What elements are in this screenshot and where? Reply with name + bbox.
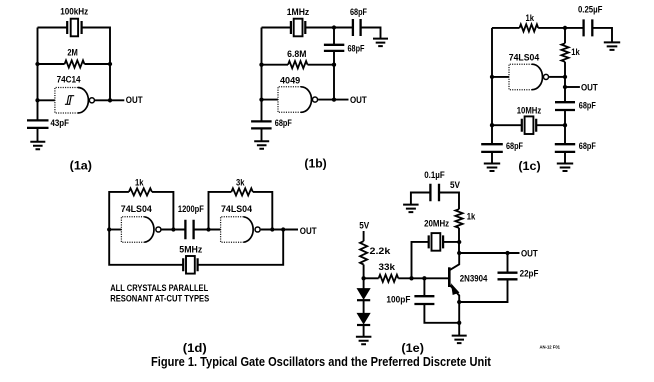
wire crystal right 1c — [536, 124, 565, 126]
svg-text:68pF: 68pF — [506, 141, 523, 152]
capacitor 68pF left 1c — [481, 144, 503, 152]
wire crystal left 1c — [492, 124, 522, 126]
wire base line — [398, 277, 449, 279]
svg-text:OUT: OUT — [300, 226, 317, 237]
resistor 2.2k — [360, 241, 367, 264]
capacitor 22pF — [498, 273, 518, 280]
svg-text:43pF: 43pF — [51, 118, 70, 129]
svg-text:OUT: OUT — [126, 95, 143, 106]
svg-text:74C14: 74C14 — [57, 74, 82, 85]
svg-text:RESONANT AT-CUT TYPES: RESONANT AT-CUT TYPES — [110, 294, 209, 305]
svg-text:1MHz: 1MHz — [287, 7, 310, 18]
ground 1a — [30, 142, 45, 150]
wire left rail 1b — [261, 28, 263, 122]
wire right cap to ground 1c — [564, 152, 566, 164]
resistor 1k 1e — [455, 209, 462, 228]
inverter 74LS04 second — [221, 217, 244, 242]
wire 6.8M left — [262, 64, 289, 66]
wire 68pF shunt to 6.8M node — [333, 51, 335, 65]
ground left 1c — [484, 164, 500, 172]
node gate output junction 1c — [563, 75, 567, 79]
svg-text:20MHz: 20MHz — [424, 218, 449, 229]
svg-text:3k: 3k — [236, 177, 245, 188]
resistor 1k feedback 1d — [129, 188, 152, 195]
svg-text:74LS04: 74LS04 — [121, 204, 153, 215]
crystal 10MHz — [522, 119, 536, 132]
inverter 4049 — [278, 87, 301, 113]
wire left cap to ground 1c — [491, 152, 493, 164]
wire crystal right 1e — [443, 241, 459, 243]
crystal 100kHz — [67, 21, 81, 34]
svg-text:1200pF: 1200pF — [178, 204, 204, 215]
wire 33k left stub — [364, 277, 379, 279]
ground diodes — [356, 337, 372, 345]
svg-text:5V: 5V — [450, 180, 460, 191]
svg-text:(1a): (1a) — [70, 158, 92, 172]
wire cap to ground top right 1b — [361, 28, 381, 39]
wire gate1 input — [109, 229, 121, 231]
wire top 1c 1k to junction — [538, 27, 583, 29]
wire crystal loop left — [109, 230, 183, 265]
wire top 1b crystal right — [305, 27, 353, 29]
wire 5V to 1k — [439, 193, 459, 210]
wire top 1b crystal left — [262, 27, 291, 29]
wire gate input 1b — [262, 99, 279, 101]
svg-text:68pF: 68pF — [348, 43, 365, 54]
svg-text:68pF: 68pF — [350, 7, 367, 18]
inverter 74LS04 1c — [509, 64, 532, 90]
wire gate output 1a — [95, 99, 124, 101]
wire 1k top stub — [564, 28, 566, 43]
wire left rail 1c — [491, 28, 493, 144]
capacitor 0.25uF — [584, 19, 593, 36]
resistor 1k feedback 1c — [520, 24, 539, 31]
resistor 33k — [379, 275, 399, 282]
svg-text:22pF: 22pF — [520, 269, 539, 280]
crystal 20MHz — [429, 235, 443, 248]
node crystal-cap junction 1b — [332, 25, 336, 29]
capacitor 100pF — [414, 296, 434, 304]
svg-text:1k: 1k — [467, 211, 476, 222]
node junction right 6.8M — [332, 63, 336, 67]
ground top right 1c — [604, 42, 620, 50]
node crystal loop junction — [281, 227, 285, 231]
node emitter junction — [457, 300, 461, 304]
capacitor 68pF upper right 1c — [555, 102, 575, 110]
svg-text:1k: 1k — [571, 47, 580, 58]
wire top 1a crystal right — [82, 28, 110, 101]
capacitor 68pF bottom 1b — [251, 121, 272, 128]
wire top 1a crystal left — [38, 27, 68, 29]
wire gate input 1c — [492, 76, 509, 78]
capacitor 68pF shunt — [324, 45, 344, 51]
resistor 6.8M — [288, 61, 308, 68]
wire diode2 to ground — [363, 325, 365, 337]
node feedback2 junction — [270, 227, 274, 231]
svg-text:10MHz: 10MHz — [517, 105, 542, 116]
wire 100pF top — [423, 278, 425, 296]
node junction left 6.8M — [259, 63, 263, 67]
ground emitter — [452, 336, 467, 344]
svg-text:OUT: OUT — [581, 82, 598, 93]
capacitor 1200pF — [185, 220, 193, 239]
node crystal left junction — [490, 123, 494, 127]
svg-text:5MHz: 5MHz — [179, 245, 202, 256]
node junction left 2M — [35, 62, 39, 66]
node ground junction 1e — [457, 321, 461, 325]
svg-text:OUT: OUT — [521, 249, 538, 260]
ground right 1c — [557, 164, 573, 172]
node bias junction — [361, 276, 365, 280]
svg-text:1k: 1k — [135, 177, 144, 188]
wire 2M feedback right — [84, 63, 110, 65]
node collector OUT junction — [457, 251, 461, 255]
svg-text:0.25µF: 0.25µF — [578, 5, 603, 16]
wire gate2 output — [261, 229, 298, 231]
svg-text:(1e): (1e) — [401, 341, 424, 355]
wire 2M feedback left — [38, 63, 65, 65]
wire 6.8M right — [308, 64, 335, 66]
wire 5V left stub — [363, 231, 365, 241]
node gate input 1b — [259, 97, 263, 101]
svg-text:2.2k: 2.2k — [370, 246, 392, 257]
svg-text:74LS04: 74LS04 — [509, 52, 540, 63]
wire left rail 1a — [37, 28, 39, 121]
wire emitter to ground — [458, 302, 460, 336]
svg-text:(1c): (1c) — [518, 159, 540, 173]
svg-text:2M: 2M — [67, 48, 78, 59]
wire crystal loop right — [198, 230, 284, 265]
svg-text:68pF: 68pF — [579, 101, 596, 112]
svg-text:100pF: 100pF — [386, 295, 410, 306]
capacitor 0.1uF — [430, 184, 439, 201]
svg-text:100kHz: 100kHz — [60, 7, 88, 18]
wire emitter to 22pF — [459, 279, 507, 302]
wire cap to ground 1b — [261, 128, 263, 141]
svg-text:68pF: 68pF — [275, 118, 292, 129]
wire gate output 1b — [318, 99, 348, 101]
wire 22pF to OUT node — [507, 253, 509, 273]
svg-text:(1b): (1b) — [304, 156, 326, 170]
transistor collector lead — [449, 253, 459, 270]
wire 1200pF to gate2 input — [194, 229, 221, 231]
capacitor 43pF — [27, 120, 49, 128]
node top junction 1c — [563, 26, 567, 30]
transistor emitter arrow — [452, 284, 459, 294]
wire 100pF bottom to ground node — [424, 304, 459, 323]
wire feedback2 right — [253, 192, 272, 230]
wire gate1 output — [162, 229, 186, 231]
inverter 74LS04 first — [121, 217, 144, 242]
crystal 1MHz — [291, 21, 305, 34]
svg-text:4049: 4049 — [280, 75, 300, 86]
ground bottom 1b — [254, 141, 269, 149]
node OUT 1b — [332, 97, 336, 101]
svg-text:68pF: 68pF — [579, 141, 596, 152]
node 100pF-base junction — [422, 276, 426, 280]
wire cap to ground 1a — [37, 128, 39, 142]
node crystal right junction 1e — [457, 240, 461, 244]
transistor emitter lead — [449, 285, 459, 303]
wire diode link — [363, 278, 365, 313]
node gate1 output junction — [171, 227, 175, 231]
wire 0.1uF left to ground — [411, 193, 431, 205]
node OUT junction 1c — [563, 85, 567, 89]
wire feedback1 right — [152, 192, 174, 230]
svg-text:33k: 33k — [379, 262, 396, 273]
wire mid rail 1b — [333, 65, 335, 100]
node OUT 1a — [108, 98, 112, 102]
inverter 74C14 schmitt — [55, 88, 78, 114]
crystal 5MHz — [183, 258, 197, 271]
wire 0.25uF to ground — [592, 28, 612, 43]
wire 2.2k to 33k node — [363, 265, 365, 279]
svg-text:(1d): (1d) — [183, 341, 207, 355]
wire 1k bottom to OUT node — [564, 62, 566, 102]
wire junction to 68pF shunt — [333, 28, 335, 45]
svg-text:74LS04: 74LS04 — [221, 204, 253, 215]
capacitor 68pF series top — [353, 19, 361, 36]
node crystal right junction — [563, 123, 567, 127]
wire crystal left to base rail — [412, 242, 429, 278]
node gate1 input — [107, 227, 111, 231]
svg-text:2N3904: 2N3904 — [460, 273, 488, 284]
wire gate output 1c — [549, 76, 565, 78]
wire feedback2 left vertical — [209, 192, 232, 230]
resistor 1k vertical 1c — [561, 43, 568, 62]
transistor 2N3904 base bar — [448, 267, 451, 287]
wire OUT stub 1c — [565, 86, 580, 88]
svg-text:5V: 5V — [359, 220, 369, 231]
svg-text:OUT: OUT — [350, 95, 367, 106]
svg-text:1k: 1k — [525, 13, 534, 24]
node gate input 1c — [490, 75, 494, 79]
node junction right 2M — [108, 62, 112, 66]
resistor 3k feedback — [231, 188, 252, 195]
wire 1k to collector node — [458, 228, 460, 253]
ground top right 1b — [373, 39, 388, 47]
node crystal-base junction — [409, 276, 413, 280]
svg-text:ALL CRYSTALS PARALLEL: ALL CRYSTALS PARALLEL — [110, 283, 208, 294]
wire 68pF to crystal node right — [564, 110, 566, 144]
wire collector to OUT — [459, 252, 519, 254]
resistor 2M — [65, 60, 85, 67]
svg-text:AN-12 F01: AN-12 F01 — [540, 345, 561, 350]
diode D2 — [357, 313, 369, 323]
wire feedback1 left vertical — [109, 192, 129, 230]
svg-text:Figure 1. Typical Gate Oscilla: Figure 1. Typical Gate Oscillators and t… — [151, 355, 492, 369]
diode D1 — [357, 289, 369, 299]
wire gate input 1a — [38, 99, 55, 101]
svg-text:6.8M: 6.8M — [287, 49, 306, 60]
ground 0.1uF — [403, 205, 419, 213]
node OUT 1e — [505, 251, 509, 255]
svg-text:0.1µF: 0.1µF — [424, 170, 445, 181]
node gate input 1a — [35, 98, 39, 102]
wire top 1c to 1k — [492, 27, 520, 29]
node gate2 input junction — [206, 227, 210, 231]
capacitor 68pF right 1c — [555, 144, 575, 152]
